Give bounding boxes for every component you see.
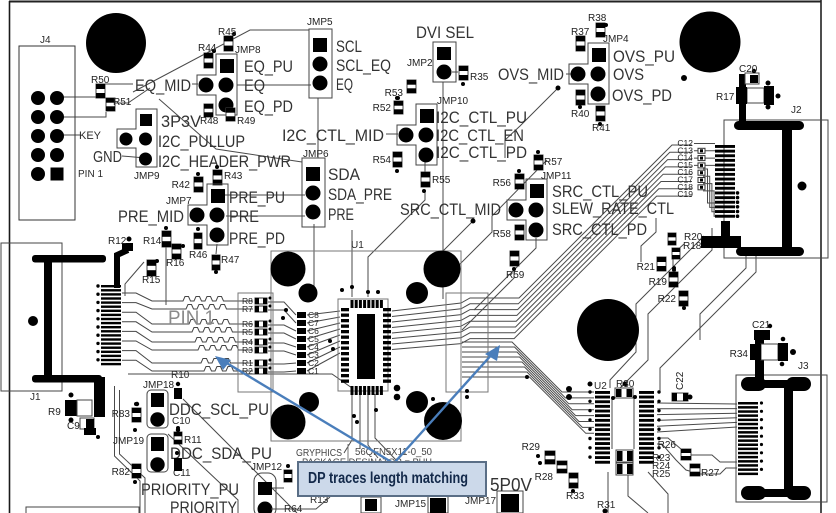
resistor R7	[242, 304, 272, 314]
wire J1 vertical pair 2	[120, 390, 146, 513]
wire R30 to pack right	[633, 398, 635, 449]
wire lane U1 to U2 8	[462, 377, 594, 433]
capacitor C17	[677, 175, 705, 185]
svg-text:R21: R21	[637, 262, 656, 273]
wire R3 to C3	[268, 351, 296, 355]
svg-text:JMP8: JMP8	[235, 45, 261, 56]
wire HDMI lane 4 J2 to U1	[392, 167, 692, 328]
svg-text:JMP7: JMP7	[166, 196, 192, 207]
via U1 TR small	[406, 282, 428, 304]
svg-text:OVS_PU: OVS_PU	[613, 47, 675, 66]
wire OVS_MID trace	[505, 88, 558, 158]
mounting hole top right	[680, 12, 741, 73]
jumper JMP19	[113, 434, 168, 472]
wire SRC_CTL_PD down to U1	[474, 238, 536, 310]
via dot near U1	[465, 395, 469, 399]
wire U2 down 1	[607, 472, 609, 513]
svg-text:R3: R3	[242, 345, 253, 355]
connector J4 pins	[31, 91, 64, 181]
wire I2C_CTL_PD to R55	[424, 162, 426, 172]
svg-text:JMP2: JMP2	[407, 58, 433, 69]
wire DP lane 3 serpentine	[122, 312, 253, 324]
via dot near U1	[281, 316, 285, 320]
svg-text:R15: R15	[142, 275, 161, 286]
resistor R57	[534, 150, 563, 170]
resistor R46	[189, 227, 208, 261]
svg-text:OVS: OVS	[613, 65, 644, 84]
via R31	[603, 509, 608, 513]
svg-text:U2: U2	[594, 381, 607, 392]
jumper JMP9	[117, 109, 160, 182]
svg-text:R40: R40	[571, 109, 590, 120]
svg-text:C22: C22	[675, 371, 686, 390]
wire DP lane 8 serpentine	[122, 360, 253, 371]
resistor R40	[571, 90, 590, 120]
wire lane U1 to U2 2	[462, 347, 594, 398]
jumper JMP4	[569, 34, 629, 104]
resistor R56	[493, 169, 524, 189]
wire src ctl crossing	[452, 160, 547, 272]
svg-text:R57: R57	[544, 157, 563, 168]
svg-text:EQ: EQ	[336, 75, 353, 94]
wire HDMI lane 3 J2 to U1	[392, 160, 692, 322]
resistor R50	[91, 75, 110, 98]
svg-text:R56: R56	[493, 178, 512, 189]
svg-text:SRC_CTL_PD: SRC_CTL_PD	[552, 220, 647, 239]
capacitor C18	[677, 182, 705, 192]
resistor R82	[112, 464, 141, 484]
wire R14 down	[165, 247, 167, 305]
wire U1 bottom lead 4	[375, 394, 396, 460]
capacitor C19	[677, 189, 693, 199]
resistor R20	[668, 232, 703, 245]
resistor R22	[658, 291, 688, 310]
svg-text:JMP18: JMP18	[143, 380, 175, 391]
wire lane U2 to J3 7	[657, 438, 737, 462]
svg-text:PIN 1: PIN 1	[78, 169, 103, 180]
svg-text:R25: R25	[652, 469, 671, 480]
capacitor C12	[677, 138, 693, 148]
svg-text:R29: R29	[522, 442, 541, 453]
board outline top edge	[9, 1, 821, 3]
svg-text:R82: R82	[112, 467, 131, 478]
wire OVS_MID leader	[566, 73, 573, 75]
resistor R59	[506, 251, 525, 281]
capacitor C16	[677, 167, 705, 177]
wire C19 to J2 pin	[703, 191, 715, 216]
wire DP lane 2 serpentine	[122, 303, 253, 309]
via U1 BR small	[406, 391, 428, 413]
jumper JMP18	[135, 380, 175, 428]
wire C14 stub	[694, 157, 715, 159]
resistor R47	[212, 255, 240, 274]
svg-text:JMP11: JMP11	[541, 171, 572, 182]
svg-text:R47: R47	[221, 255, 240, 266]
via U1 corner TR	[424, 251, 461, 288]
wire U1 bottom lead 3	[368, 394, 378, 458]
jumper JMP10	[397, 96, 469, 165]
wire J4 pin2 to R51	[63, 112, 106, 117]
svg-text:U1: U1	[351, 240, 364, 251]
svg-text:R38: R38	[588, 13, 607, 24]
capacitor C15	[677, 160, 705, 170]
capacitor C5	[297, 334, 319, 344]
capacitor C6	[297, 326, 319, 336]
jumper JMP17 pad	[497, 491, 523, 513]
svg-text:R7: R7	[242, 304, 253, 314]
svg-text:C10: C10	[172, 416, 191, 427]
resistor R48	[200, 104, 219, 127]
capacitor C2	[297, 358, 319, 368]
connector J2 body	[734, 121, 807, 256]
resistor R5	[242, 327, 272, 337]
callout box DP traces length matching	[298, 462, 486, 496]
svg-text:R46: R46	[189, 250, 208, 261]
resistor R21	[637, 257, 676, 273]
wire JMP12 circle right	[271, 497, 330, 509]
wire C17 to J2 pin	[703, 176, 715, 207]
resistor R15	[142, 259, 161, 286]
wire R50 to EQ_MID	[100, 83, 133, 85]
svg-text:JMP4: JMP4	[603, 34, 629, 45]
jumper JMP5	[307, 17, 333, 98]
svg-text:R41: R41	[592, 123, 611, 134]
via dot near U1	[465, 389, 469, 393]
wire R6 to C6	[268, 325, 296, 331]
svg-text:DDC_SDA_PU: DDC_SDA_PU	[170, 444, 272, 463]
via dots right of U1	[394, 385, 401, 401]
wire R7 to C7	[268, 310, 296, 323]
svg-text:EQ: EQ	[244, 76, 265, 95]
via dot near U1	[376, 290, 380, 294]
connector J2 outline	[724, 120, 828, 258]
wire SCL jumper to SDA jumper	[317, 98, 319, 158]
wire lane U1 to U2 3	[462, 352, 594, 404]
svg-text:I2C_HEADER_PWR: I2C_HEADER_PWR	[158, 152, 291, 171]
resistor R43	[213, 165, 243, 185]
capacitor C20	[739, 64, 759, 84]
wire PRE net down to U1	[313, 224, 315, 299]
capacitor C22	[672, 371, 693, 401]
wire HDMI lane 8 J2 to U1	[392, 196, 692, 349]
capacitor C8	[297, 310, 319, 320]
wire R2 to C2	[268, 363, 296, 364]
jumper JMP2	[407, 42, 456, 82]
via dot near U1	[331, 347, 335, 351]
resistor R26	[658, 440, 691, 460]
wire R5 to C5	[268, 333, 296, 339]
wire R10 trace	[128, 374, 352, 388]
svg-text:JMP9: JMP9	[134, 171, 160, 182]
resistor R29	[522, 442, 555, 465]
wire C6 to U1 pad	[307, 323, 340, 331]
wire lane U2 to J3 1	[657, 403, 737, 404]
resistor R18	[672, 241, 702, 259]
svg-text:R28: R28	[535, 472, 554, 483]
resistor R14	[143, 226, 171, 247]
svg-text:JMP15: JMP15	[395, 499, 427, 510]
svg-text:R55: R55	[432, 175, 451, 186]
via U1 TL small	[299, 284, 318, 303]
capacitor C1	[297, 366, 319, 376]
svg-text:R22: R22	[658, 294, 677, 305]
resistor R42	[172, 172, 203, 192]
svg-text:EQ_MID: EQ_MID	[135, 76, 191, 95]
wire DDC scl trace down	[183, 399, 297, 513]
svg-text:SCL_EQ: SCL_EQ	[336, 56, 391, 75]
svg-text:PRE_PD: PRE_PD	[229, 229, 285, 248]
wire DP lane 4 serpentine	[122, 322, 253, 332]
svg-text:R48: R48	[200, 116, 219, 127]
board outline left edge	[9, 1, 11, 513]
resistor R11	[174, 426, 202, 446]
resistor R83	[112, 402, 141, 432]
wire J2 pin to U2 area 2	[610, 236, 704, 388]
svg-text:PRE: PRE	[229, 207, 259, 226]
wire lane U1 to U2 1	[462, 342, 594, 392]
svg-text:EQ_PU: EQ_PU	[244, 57, 293, 76]
R1-R8 resistor zone	[238, 293, 273, 392]
wire HDMI lane 7 J2 to U1	[392, 189, 692, 344]
svg-text:I2C_PULLUP: I2C_PULLUP	[158, 132, 245, 151]
svg-text:R35: R35	[470, 72, 489, 83]
wire slew rate down to U1	[462, 269, 514, 330]
capacitor C9	[67, 418, 100, 439]
resistor R12	[108, 236, 133, 288]
svg-text:JMP19: JMP19	[113, 436, 145, 447]
wire HDMI lane 6 J2 to U1	[392, 182, 692, 339]
wire PRE_PD to R47	[216, 244, 217, 254]
resistor R58	[493, 225, 524, 240]
svg-text:R18: R18	[683, 241, 702, 252]
bottom left part outline	[26, 507, 139, 513]
capacitor C13	[677, 145, 705, 155]
svg-text:R16: R16	[166, 258, 185, 269]
svg-text:GND: GND	[93, 149, 122, 166]
IC U1 pads	[341, 300, 391, 395]
svg-text:PRE_MID: PRE_MID	[118, 207, 184, 226]
wire R15 down	[125, 262, 144, 296]
wire R30 to pack left	[611, 398, 613, 449]
svg-text:R19: R19	[649, 277, 668, 288]
resistor R28	[535, 461, 567, 483]
svg-text:DP traces length matching: DP traces length matching	[308, 470, 468, 487]
wire lane U1 to U2 7	[462, 372, 594, 427]
wire C5 to U1 pad	[307, 329, 340, 339]
connector J1 pins	[96, 284, 121, 365]
node SRC_CTL_MID	[471, 219, 476, 224]
jumper JMP11	[507, 171, 572, 240]
resistor R3	[242, 345, 272, 355]
wire lane U2 to J3 3	[657, 413, 737, 414]
wire U2 down 2	[628, 472, 648, 513]
wire U2 down 3	[648, 472, 668, 513]
capacitor C7	[297, 318, 319, 328]
resistor R16	[166, 244, 185, 269]
right matching zone	[446, 293, 488, 392]
svg-text:R54: R54	[373, 155, 392, 166]
wire R1 to C1	[268, 371, 296, 372]
svg-text:R64: R64	[284, 504, 303, 513]
connector J3 outline	[736, 375, 827, 502]
svg-text:C20: C20	[739, 64, 758, 75]
wire C1 to U1 pad	[307, 353, 340, 371]
divider line	[347, 444, 349, 465]
svg-text:I2C_CTL_PD: I2C_CTL_PD	[436, 143, 527, 162]
resistor R4	[242, 337, 272, 347]
svg-text:R45: R45	[218, 27, 237, 38]
IC U1 body	[357, 314, 375, 379]
wire lane U2 to J3 6	[657, 427, 737, 432]
svg-text:5P0V: 5P0V	[490, 475, 532, 495]
svg-text:R53: R53	[385, 88, 404, 99]
svg-text:C9: C9	[67, 421, 80, 432]
wire DDC trace down	[168, 434, 238, 513]
wire SRC_CTL_MID trace	[435, 221, 473, 270]
svg-text:R9: R9	[48, 407, 61, 418]
resistor R30	[611, 379, 637, 400]
svg-text:C1: C1	[308, 366, 319, 376]
svg-text:J2: J2	[791, 105, 802, 116]
connector J4 outline	[19, 46, 75, 220]
svg-text:OVS_MID: OVS_MID	[498, 65, 564, 84]
wire J2 shield to J3 area 2	[660, 256, 756, 392]
wire C15 stub	[694, 164, 715, 166]
resistor R37	[571, 27, 590, 51]
via near hole top right	[681, 75, 687, 81]
wire J2 pin to U2 area	[620, 228, 712, 388]
wire pour boundary diagonal 2	[159, 99, 302, 162]
wire lane U2 to J3 2	[657, 408, 737, 410]
wire C18 to J2 pin	[703, 184, 715, 212]
wire C21 R34 to J3	[755, 331, 764, 387]
svg-text:PIN 1: PIN 1	[168, 308, 215, 329]
wire JMP12 down	[265, 509, 267, 513]
svg-text:PRIORITY_PU: PRIORITY_PU	[141, 480, 239, 499]
resistor R35	[459, 66, 489, 86]
via dot near U1	[374, 408, 378, 412]
wire lane U1 to U2 6	[462, 367, 594, 422]
svg-text:R52: R52	[373, 103, 392, 114]
via dot near U1	[366, 290, 370, 294]
via U1 corner BR	[424, 402, 462, 440]
resistor R8	[242, 296, 272, 306]
resistor R1	[242, 358, 272, 368]
svg-text:C21: C21	[752, 320, 771, 331]
svg-text:R58: R58	[493, 229, 512, 240]
wire EQ to JMP5	[237, 84, 311, 86]
svg-text:KEY: KEY	[79, 130, 102, 142]
svg-text:SRC_CTL_MID: SRC_CTL_MID	[400, 200, 501, 219]
wire R8 to C8	[268, 302, 296, 315]
svg-text:JMP6: JMP6	[303, 149, 329, 160]
wire lane U1 to U2 5	[462, 362, 594, 416]
wire U1 bottom lead 2	[359, 394, 361, 449]
capacitor C11 body	[174, 451, 182, 471]
wire PRE to U1 top	[351, 230, 353, 297]
J2 shield tab	[701, 221, 741, 248]
resistor pack below U2	[616, 450, 633, 475]
resistor R34	[730, 337, 796, 367]
capacitor C3	[297, 350, 319, 360]
jumper JMP12	[251, 462, 283, 513]
jumper JMP6	[302, 149, 329, 227]
wire lane U2 to J3 5	[657, 422, 737, 426]
connector J3 body	[741, 377, 811, 500]
wire J2 shield to J3 area 1	[700, 256, 746, 340]
resistor R19	[649, 266, 678, 288]
svg-text:J4: J4	[40, 35, 51, 46]
wire DP lane 6 serpentine	[122, 341, 253, 350]
via dot near U1	[431, 397, 435, 401]
wire C12 stub	[694, 143, 715, 145]
resistor R54	[373, 152, 402, 173]
svg-text:OVS_PD: OVS_PD	[612, 86, 672, 105]
svg-text:R42: R42	[172, 180, 191, 191]
jumper pad left of JMP15	[361, 497, 381, 513]
svg-text:I2C_CTL_PU: I2C_CTL_PU	[436, 108, 527, 127]
svg-text:J3: J3	[798, 361, 809, 372]
svg-text:PRE_PU: PRE_PU	[229, 188, 285, 207]
wire PRE_PU to JMP6	[224, 194, 305, 196]
via dot near U1	[355, 420, 359, 424]
jumper JMP7	[166, 184, 228, 245]
wire EQ_MID leader	[192, 83, 198, 85]
capacitor C10 body	[174, 382, 182, 432]
svg-text:R33: R33	[566, 491, 585, 502]
svg-text:R27: R27	[701, 468, 720, 479]
svg-text:DVI SEL: DVI SEL	[416, 23, 474, 42]
wire J1 vertical pair 1	[115, 386, 141, 513]
wire C2 to U1 pad	[307, 347, 340, 363]
svg-text:R49: R49	[237, 116, 256, 127]
wire HDMI lane 2 J2 to U1	[392, 152, 692, 316]
svg-text:R43: R43	[224, 171, 243, 182]
wire lane U1 to U2 4	[462, 357, 594, 410]
wire R21 to J2 pin	[641, 218, 656, 262]
resistor R6	[242, 319, 272, 329]
jumper JMP15 pad	[428, 496, 448, 513]
wire R19 to R18	[673, 244, 684, 266]
connector J3 pins	[738, 401, 763, 475]
wire R51 up	[115, 88, 150, 103]
svg-text:R5: R5	[242, 327, 253, 337]
svg-text:R34: R34	[730, 349, 749, 360]
svg-text:R59: R59	[506, 270, 525, 281]
svg-text:C19: C19	[677, 189, 693, 199]
via dots left of U2	[566, 382, 593, 401]
resistor R53	[385, 80, 416, 100]
IC U2 pads	[588, 390, 660, 463]
connector J1 outline	[1, 243, 62, 391]
svg-text:R12: R12	[108, 236, 127, 247]
via dot near U1	[350, 285, 354, 289]
svg-text:SLEW_RATE_CTL: SLEW_RATE_CTL	[552, 199, 674, 218]
resistor R51	[106, 97, 132, 111]
svg-text:3P3V: 3P3V	[161, 112, 202, 131]
via U1 corner TL	[271, 252, 306, 287]
connector J2 pins	[715, 145, 739, 218]
mounting hole middle right	[577, 299, 639, 361]
svg-text:PRIORITY: PRIORITY	[170, 498, 237, 513]
resistor R49	[226, 108, 256, 127]
svg-text:SDA_PRE: SDA_PRE	[328, 185, 392, 204]
resistor R55	[421, 172, 451, 193]
via U1 corner BL	[271, 405, 306, 440]
wire I2C_CTL_MID leader	[386, 133, 398, 135]
capacitor C4	[297, 342, 319, 352]
svg-text:J1: J1	[30, 392, 41, 403]
